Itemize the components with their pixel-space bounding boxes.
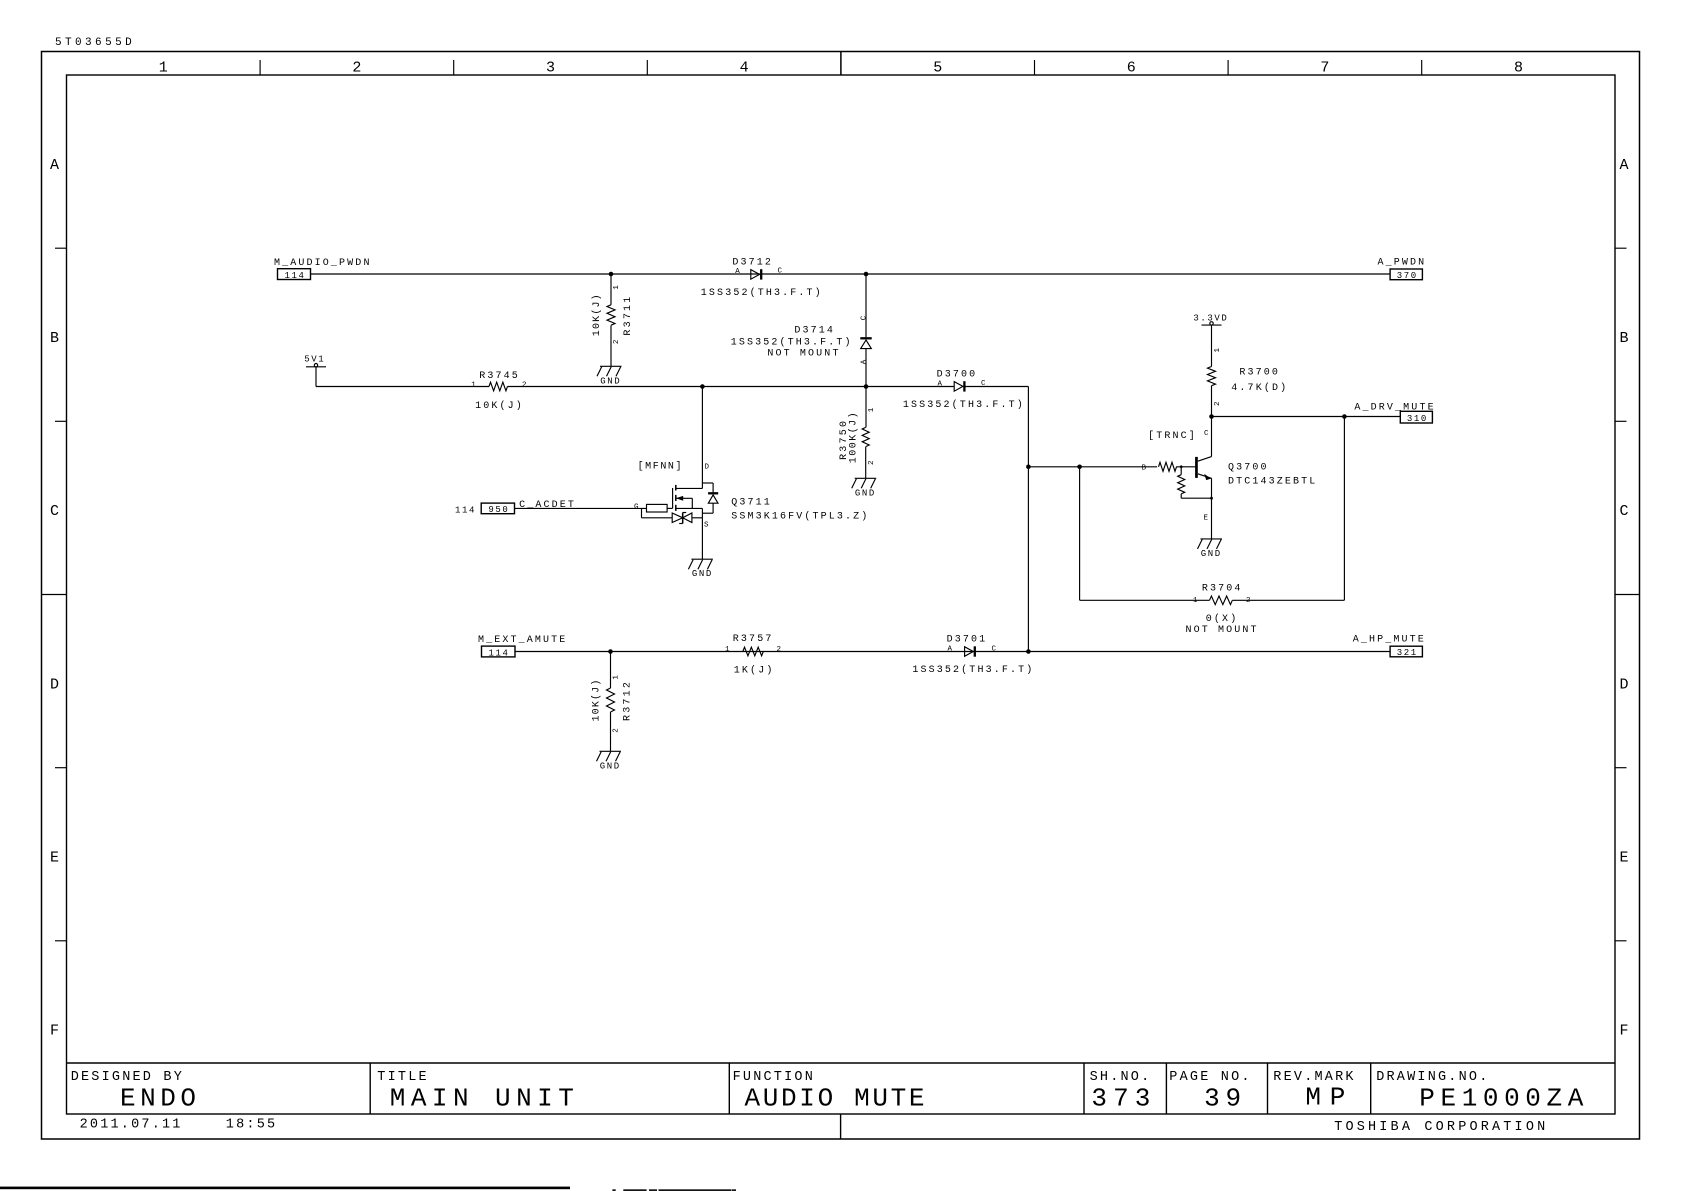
wire R3712 bottom: [610, 712, 612, 751]
svg-text:D: D: [705, 464, 711, 472]
diode D3712 1SS352(TH3.F.T): [701, 258, 823, 299]
svg-text:A: A: [1619, 157, 1628, 174]
svg-text:D3701: D3701: [947, 635, 988, 646]
wire net M_EXT_AMUTE to A_HP_MUTE: [515, 651, 1390, 653]
title block divider TITLE: [369, 1063, 371, 1114]
svg-text:310: 310: [1407, 414, 1428, 424]
column center fold tick 4/5: [840, 52, 842, 76]
svg-text:2: 2: [868, 459, 876, 465]
svg-text:[TRNC]: [TRNC]: [1148, 430, 1197, 442]
net connector C_ACDET 950: [455, 500, 576, 516]
svg-text:1: 1: [612, 674, 620, 680]
left row tick A/B: [55, 247, 67, 249]
transistor Q3711 SSM3K16FV(TPL3.Z): [634, 387, 869, 560]
svg-text:D: D: [50, 676, 59, 693]
resistor R3700 4.7K(D): [1208, 347, 1289, 406]
wire net M_AUDIO_PWDN to A_PWDN: [311, 273, 1391, 275]
resistor R3757 1K(J): [725, 634, 782, 676]
svg-text:114: 114: [285, 271, 306, 281]
svg-text:E: E: [50, 850, 59, 867]
ground GND (R3712): [597, 751, 622, 771]
svg-text:10K(J): 10K(J): [475, 400, 524, 412]
svg-text:MAIN UNIT: MAIN UNIT: [390, 1084, 574, 1114]
resistor R3704 0(X) NOT MOUNT: [1186, 583, 1259, 636]
svg-text:100K(J): 100K(J): [848, 410, 860, 463]
junction node Y4/R3712: [608, 649, 613, 654]
right row tick D/E: [1615, 767, 1627, 769]
svg-text:GND: GND: [600, 376, 621, 386]
column tick 5/6: [1034, 60, 1036, 75]
title block divider FUNCTION: [728, 1063, 730, 1114]
svg-text:6: 6: [1127, 60, 1136, 77]
svg-text:1: 1: [159, 60, 168, 77]
column tick 1/2: [259, 60, 261, 75]
bottom margin fold divider: [840, 1114, 842, 1139]
svg-text:GND: GND: [855, 488, 876, 498]
title block divider PAGE NO.: [1165, 1063, 1167, 1114]
ground GND (Q3700): [1198, 539, 1223, 559]
wire 5V1 drop: [315, 367, 317, 387]
column tick 6/7: [1227, 60, 1229, 75]
svg-text:5V1: 5V1: [304, 354, 325, 364]
right row tick B/C: [1615, 420, 1627, 422]
svg-text:4.7K(D): 4.7K(D): [1231, 382, 1288, 394]
wire C_ACDET to gate: [515, 507, 647, 509]
ground GND (R3711): [597, 366, 622, 386]
resistor R3712 10K(J): [590, 674, 633, 733]
svg-text:C: C: [778, 268, 784, 276]
svg-text:114: 114: [489, 648, 510, 658]
junction node Y1/R3711: [609, 272, 614, 277]
svg-text:R3712: R3712: [623, 680, 634, 721]
svg-text:C_ACDET: C_ACDET: [519, 500, 576, 511]
svg-text:D3714: D3714: [794, 325, 835, 336]
clipped next-page rule at bottom edge: [0, 1187, 570, 1190]
net connector M_AUDIO_PWDN 114: [274, 258, 372, 281]
right fold line C/D: [1615, 594, 1640, 596]
svg-text:8: 8: [1514, 60, 1523, 77]
svg-text:3: 3: [546, 60, 555, 77]
junction node Y2/D3714: [864, 384, 869, 389]
svg-text:1: 1: [868, 407, 876, 413]
svg-text:M_AUDIO_PWDN: M_AUDIO_PWDN: [274, 258, 372, 269]
svg-text:Q3700: Q3700: [1228, 462, 1269, 473]
svg-text:Q3711: Q3711: [731, 498, 772, 509]
svg-text:10K(J): 10K(J): [591, 292, 603, 336]
svg-text:B: B: [1142, 465, 1148, 473]
net connector M_EXT_AMUTE 114: [478, 635, 567, 658]
svg-text:[MFNN]: [MFNN]: [638, 461, 684, 473]
svg-text:NOT MOUNT: NOT MOUNT: [1186, 625, 1259, 636]
column tick 7/8: [1421, 60, 1423, 75]
wire vertical corner to A_HP_MUTE: [1027, 387, 1029, 652]
svg-text:F: F: [1619, 1023, 1628, 1040]
wire 3.3VD to R3700: [1211, 325, 1213, 366]
svg-text:R3700: R3700: [1239, 367, 1280, 378]
svg-text:2: 2: [777, 646, 783, 654]
svg-text:1: 1: [471, 382, 477, 390]
wire R3712 top: [610, 652, 612, 689]
svg-text:D: D: [1619, 676, 1628, 693]
junction node R3704 branch: [1077, 465, 1082, 470]
svg-text:A: A: [861, 359, 869, 365]
svg-text:1: 1: [725, 646, 731, 654]
svg-text:1: 1: [613, 284, 621, 290]
svg-text:E: E: [1619, 850, 1628, 867]
svg-text:SSM3K16FV(TPL3.Z): SSM3K16FV(TPL3.Z): [731, 511, 869, 523]
svg-text:321: 321: [1397, 648, 1418, 658]
junction node Y1/D3714: [864, 272, 869, 277]
svg-text:7: 7: [1320, 60, 1329, 77]
svg-text:C: C: [1204, 430, 1210, 438]
svg-text:1: 1: [1193, 597, 1199, 605]
power 3.3VD: [1193, 314, 1228, 325]
svg-text:1: 1: [1214, 347, 1222, 353]
junction node collector/A_DRV_MUTE: [1209, 414, 1214, 419]
svg-text:2: 2: [522, 382, 528, 390]
svg-text:370: 370: [1397, 271, 1418, 281]
svg-text:D3700: D3700: [937, 370, 978, 381]
wire R3711 bottom: [610, 325, 612, 366]
svg-text:2: 2: [613, 727, 621, 733]
svg-text:F: F: [50, 1023, 59, 1040]
svg-text:R3704: R3704: [1202, 583, 1243, 594]
svg-text:E: E: [1204, 514, 1210, 522]
wire R3704 right: [1232, 599, 1344, 601]
wire D3714 anode down: [865, 349, 867, 387]
net connector A_HP_MUTE 321: [1353, 634, 1426, 658]
svg-text:950: 950: [488, 505, 509, 515]
svg-text:A: A: [50, 157, 59, 174]
svg-text:5T03655D: 5T03655D: [55, 37, 135, 49]
left row tick D/E: [55, 767, 67, 769]
svg-text:C: C: [1619, 503, 1628, 520]
svg-text:DTC143ZEBTL: DTC143ZEBTL: [1228, 476, 1317, 487]
svg-text:NOT MOUNT: NOT MOUNT: [767, 349, 840, 360]
svg-text:GND: GND: [1201, 549, 1222, 559]
power 5V1: [304, 354, 326, 367]
clipped next-page text fragments: [612, 1189, 615, 1191]
resistor R3711 10K(J): [591, 284, 634, 344]
transistor Q3700 DTC143ZEBTL: [1142, 417, 1318, 539]
svg-text:2: 2: [352, 60, 361, 77]
svg-text:B: B: [50, 330, 59, 347]
svg-text:D3712: D3712: [732, 258, 773, 269]
wire R3704 branch down: [1079, 467, 1081, 601]
svg-text:R3745: R3745: [479, 371, 520, 382]
svg-text:373: 373: [1091, 1084, 1150, 1114]
svg-text:2011.07.11: 2011.07.11: [80, 1118, 183, 1133]
svg-text:B: B: [1619, 330, 1628, 347]
wire A_DRV_MUTE: [1212, 416, 1401, 418]
svg-text:1SS352(TH3.F.T): 1SS352(TH3.F.T): [731, 337, 853, 349]
svg-text:R3711: R3711: [623, 295, 634, 336]
net connector A_DRV_MUTE 310: [1354, 402, 1435, 424]
junction node base line left: [1026, 465, 1031, 470]
ground GND (R3750): [852, 478, 877, 498]
svg-text:S: S: [704, 522, 710, 530]
svg-text:G: G: [634, 504, 640, 512]
ground GND (Q3711): [688, 559, 713, 579]
left row tick B/C: [55, 420, 67, 422]
wire base line to R3704 branch: [1028, 466, 1157, 468]
svg-text:GND: GND: [600, 761, 621, 771]
svg-text:R3757: R3757: [733, 634, 774, 645]
wire Y2 right of R3745: [508, 386, 955, 388]
title block divider SH.NO.: [1083, 1063, 1085, 1114]
resistor R3750 100K(J): [839, 407, 876, 465]
wire R3750 top: [865, 387, 867, 428]
svg-text:114: 114: [455, 506, 476, 516]
svg-text:C: C: [992, 646, 998, 654]
svg-text:A_PWDN: A_PWDN: [1378, 257, 1427, 268]
wire D3714 cathode up: [865, 274, 867, 337]
title block divider REV.MARK: [1267, 1063, 1269, 1114]
svg-text:C: C: [860, 315, 868, 321]
wire D3700 cathode to corner: [963, 386, 1029, 388]
svg-text:M_EXT_AMUTE: M_EXT_AMUTE: [478, 635, 567, 646]
svg-text:1SS352(TH3.F.T): 1SS352(TH3.F.T): [903, 399, 1025, 411]
resistor R3745 10K(J): [471, 371, 527, 412]
wire R3704 line: [1080, 599, 1210, 601]
left row tick E/F: [55, 940, 67, 942]
wire R3750 bottom: [865, 447, 867, 479]
wire R3711 top: [610, 274, 612, 305]
junction node Y4/D3700 branch: [1026, 649, 1031, 654]
svg-text:2: 2: [613, 339, 621, 345]
svg-text:1SS352(TH3.F.T): 1SS352(TH3.F.T): [912, 664, 1034, 676]
svg-text:5: 5: [933, 60, 942, 77]
svg-text:GND: GND: [692, 569, 713, 579]
diode D3714 1SS352(TH3.F.T) NOT MOUNT: [731, 315, 872, 365]
svg-text:A: A: [735, 268, 741, 276]
svg-text:1K(J): 1K(J): [734, 664, 775, 676]
wire R3704 right vertical: [1343, 417, 1345, 601]
wire Y2 left of R3745: [316, 386, 489, 388]
svg-text:10K(J): 10K(J): [590, 678, 602, 722]
title block top line: [67, 1062, 1616, 1064]
svg-text:18:55: 18:55: [226, 1118, 278, 1133]
diode D3700 1SS352(TH3.F.T): [903, 370, 1025, 412]
title block divider DRAWING.NO.: [1370, 1063, 1372, 1114]
svg-text:4: 4: [740, 60, 749, 77]
junction node A_DRV_MUTE/R3704: [1342, 414, 1347, 419]
right row tick A/B: [1615, 247, 1627, 249]
column tick 2/3: [453, 60, 455, 75]
svg-text:A: A: [938, 380, 944, 388]
column tick 3/4: [646, 60, 648, 75]
diode D3701 1SS352(TH3.F.T): [912, 635, 1034, 676]
junction node Y2/Q3711 drain: [700, 384, 705, 389]
svg-text:2: 2: [1214, 400, 1222, 406]
svg-text:0(X): 0(X): [1206, 613, 1239, 625]
svg-text:A_HP_MUTE: A_HP_MUTE: [1353, 634, 1426, 645]
svg-text:A: A: [948, 646, 954, 654]
wire R3700 bottom to collector node: [1211, 386, 1213, 417]
right row tick E/F: [1615, 940, 1627, 942]
left fold line C/D: [42, 594, 67, 596]
svg-text:C: C: [50, 503, 59, 520]
svg-text:1SS352(TH3.F.T): 1SS352(TH3.F.T): [701, 287, 823, 299]
net connector A_PWDN 370: [1378, 257, 1427, 281]
